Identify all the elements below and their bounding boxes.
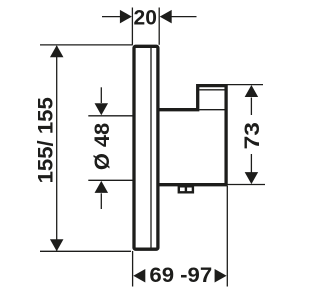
- dimension 69-97: right extension line: [226, 186, 228, 287]
- handle step inner horizontal line: [199, 109, 224, 111]
- handle outline: [159, 86, 227, 185]
- dimension 20: right extension line: [158, 8, 160, 45]
- dimension 155/155: dimension line: [56, 46, 58, 251]
- dimension diameter 48: bottom arrow stem: [100, 193, 102, 209]
- dimension 20: right tail line: [171, 16, 197, 18]
- dimension 69-97: left arrowhead: [133, 269, 145, 283]
- dimension 73: upper stem: [250, 98, 252, 116]
- dimension 73: top arrowhead: [245, 85, 259, 97]
- plate inner edge line: [150, 47, 152, 248]
- dimension diameter 48: top extension line: [88, 115, 134, 117]
- dimension 20: label text: [134, 6, 157, 29]
- dimension diameter 48: label text: [90, 123, 114, 170]
- dimension 69-97: left extension line: [132, 251, 134, 287]
- escutcheon plate outline: [134, 46, 158, 249]
- dimension diameter 48: bottom arrowhead: [95, 181, 109, 193]
- dimension 73: label text: [240, 122, 264, 149]
- dimension 73: top extension line: [227, 84, 263, 86]
- dimension 20: right arrowhead: [160, 10, 172, 24]
- svg-text:155/ 155: 155/ 155: [33, 97, 57, 183]
- dimension 20: left arrowhead: [120, 10, 132, 24]
- svg-text:Ø 48: Ø 48: [90, 123, 114, 170]
- svg-text:73: 73: [240, 122, 264, 149]
- button under handle: [179, 185, 193, 193]
- dimension diameter 48: top arrow stem: [100, 87, 102, 103]
- dimension 73: bottom extension line: [227, 184, 265, 186]
- dimension 73: bottom arrowhead: [245, 172, 259, 184]
- dimension 20: left tail line: [102, 16, 121, 18]
- dimension 20: left extension line: [131, 8, 133, 45]
- dimension 155/155: bottom arrowhead: [50, 239, 64, 251]
- dimension diameter 48: bottom extension line: [88, 179, 134, 181]
- svg-text:20: 20: [134, 6, 157, 29]
- dimension 155/155: label text: [33, 97, 57, 183]
- svg-text:69 -97: 69 -97: [149, 263, 212, 287]
- dimension 155/155: top arrowhead: [50, 45, 64, 57]
- dimension 155/155: top extension line: [40, 44, 133, 46]
- dimension 69-97: label text: [149, 263, 212, 287]
- dimension 155/155: bottom extension line: [40, 250, 131, 252]
- dimension 73: lower stem: [250, 154, 252, 173]
- handle step inner top line: [199, 89, 224, 91]
- dimension 69-97: right arrowhead: [215, 269, 227, 283]
- dimension diameter 48: top arrowhead: [95, 103, 109, 115]
